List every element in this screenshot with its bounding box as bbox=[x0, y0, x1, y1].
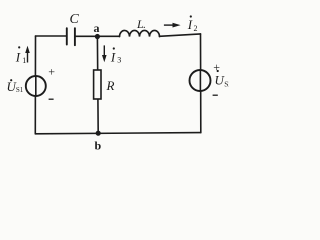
svg-text:R: R bbox=[106, 78, 115, 93]
svg-text:I: I bbox=[110, 50, 116, 65]
svg-text:3: 3 bbox=[117, 56, 121, 65]
svg-text:2: 2 bbox=[194, 24, 198, 33]
svg-text:I: I bbox=[15, 49, 21, 64]
svg-text:a: a bbox=[94, 21, 100, 35]
svg-text:S2: S2 bbox=[224, 79, 229, 88]
svg-text:+: + bbox=[48, 65, 55, 79]
svg-text:I: I bbox=[187, 17, 193, 32]
svg-text:1: 1 bbox=[22, 56, 26, 65]
svg-text:S1: S1 bbox=[16, 86, 24, 94]
svg-text:b: b bbox=[95, 139, 102, 153]
svg-text:.: . bbox=[143, 20, 146, 31]
svg-text:C: C bbox=[70, 12, 80, 27]
svg-text:+: + bbox=[213, 60, 220, 74]
